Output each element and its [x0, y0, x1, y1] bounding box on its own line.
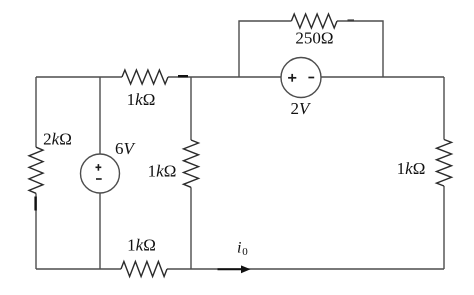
svg-text:1kΩ: 1kΩ — [148, 162, 177, 181]
svg-text:2V: 2V — [291, 99, 313, 118]
svg-text:1kΩ: 1kΩ — [127, 90, 156, 109]
svg-text:0: 0 — [242, 246, 248, 258]
svg-text:1kΩ: 1kΩ — [127, 235, 156, 254]
svg-text:1kΩ: 1kΩ — [397, 159, 426, 178]
svg-text:250Ω: 250Ω — [295, 29, 333, 48]
svg-text:2kΩ: 2kΩ — [43, 130, 72, 149]
svg-text:6V: 6V — [115, 139, 137, 158]
svg-text:i: i — [237, 239, 241, 256]
